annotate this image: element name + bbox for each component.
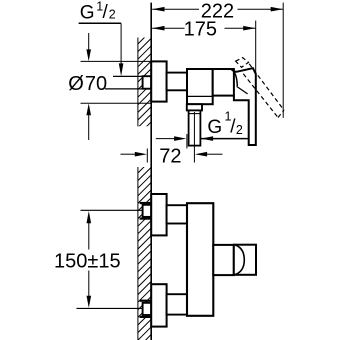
svg-text:150±15: 150±15: [54, 251, 121, 273]
svg-text:175: 175: [184, 19, 217, 41]
svg-text:2: 2: [109, 8, 116, 22]
svg-text:/: /: [103, 2, 109, 23]
svg-text:G: G: [80, 3, 95, 24]
svg-text:2: 2: [236, 123, 243, 137]
svg-text:70: 70: [85, 73, 107, 95]
svg-text:Ø: Ø: [68, 73, 84, 95]
svg-text:G: G: [207, 117, 222, 138]
svg-text:72: 72: [159, 145, 181, 167]
